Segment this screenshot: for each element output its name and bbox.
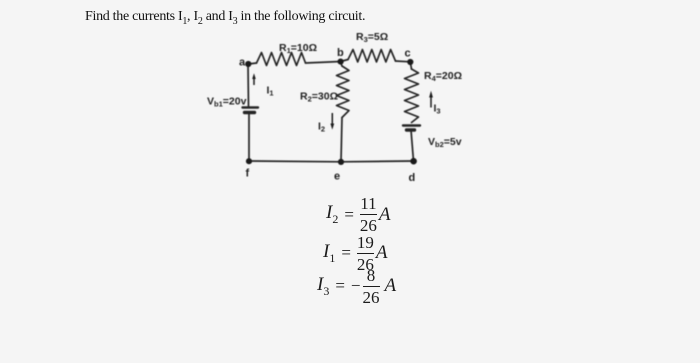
resistor R3 bbox=[348, 50, 396, 63]
wire: node c to resistor R4 bbox=[410, 62, 411, 69]
wire: resistor R1 to node b bbox=[306, 62, 341, 64]
battery Vb1 plate short bbox=[245, 111, 255, 114]
battery Vb2 plate long bbox=[403, 124, 420, 126]
svg-text:d: d bbox=[409, 172, 416, 184]
wire: node b to resistor R3 bbox=[341, 60, 349, 62]
resistor R2 bbox=[337, 66, 350, 118]
current arrow I2 bbox=[330, 113, 334, 130]
wire: node a to battery Vb1 bbox=[247, 64, 250, 107]
svg-text:R4=20Ω: R4=20Ω bbox=[424, 70, 462, 83]
svg-text:e: e bbox=[334, 171, 340, 183]
wire: resistor R2 to node e bbox=[341, 118, 342, 162]
node e junction dot bbox=[338, 159, 344, 165]
title text bbox=[85, 9, 365, 27]
wire: battery Vb2 to node d bbox=[411, 130, 414, 161]
node a junction dot bbox=[245, 61, 251, 67]
node d junction dot bbox=[410, 158, 417, 165]
equation I3 = -8/26 A bbox=[317, 268, 396, 305]
svg-text:a: a bbox=[239, 57, 246, 69]
svg-text:b: b bbox=[337, 47, 344, 59]
battery Vb2 plate short bbox=[407, 128, 415, 131]
svg-text:f: f bbox=[246, 168, 250, 180]
svg-text:R2=30Ω: R2=30Ω bbox=[300, 91, 338, 104]
node b junction dot bbox=[338, 59, 344, 65]
battery Vb1 plate long bbox=[243, 106, 259, 108]
svg-text:R1=10Ω: R1=10Ω bbox=[279, 42, 317, 55]
resistor R4 bbox=[405, 69, 419, 123]
wire: node a to resistor R1 bbox=[249, 63, 257, 64]
current arrow I1 bbox=[252, 73, 256, 85]
equation I1 = 19/26 A bbox=[323, 235, 388, 272]
svg-text:R3=5Ω: R3=5Ω bbox=[356, 31, 388, 44]
svg-text:I1: I1 bbox=[267, 85, 274, 98]
current arrow I3 bbox=[429, 91, 433, 108]
wire: node b to resistor R2 bbox=[341, 62, 343, 67]
wire: bottom f to e bbox=[249, 160, 341, 163]
svg-text:Vb1=20v: Vb1=20v bbox=[207, 96, 247, 109]
node f junction dot bbox=[246, 158, 252, 164]
wire: resistor R3 to node c bbox=[396, 60, 411, 63]
svg-text:Vb2=5v: Vb2=5v bbox=[428, 136, 462, 149]
equation I2 = 11/26 A bbox=[326, 196, 391, 233]
svg-text:c: c bbox=[405, 48, 411, 60]
svg-text:I2: I2 bbox=[318, 121, 325, 134]
wire: bottom e to d bbox=[341, 160, 414, 163]
resistor R1 bbox=[257, 53, 306, 66]
wire: battery Vb1 to node f bbox=[248, 113, 250, 162]
node c junction dot bbox=[407, 59, 413, 65]
svg-text:I3: I3 bbox=[434, 103, 441, 116]
